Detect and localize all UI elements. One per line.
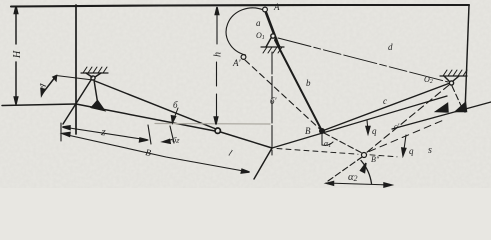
left tick xyxy=(60,123,62,141)
point A' circle xyxy=(241,55,246,60)
svg-text:б: б xyxy=(173,100,178,110)
dash-dot line d O1 to O2 xyxy=(278,38,448,82)
boom lower chord xyxy=(76,104,215,131)
dashed b' A' to B xyxy=(245,60,322,131)
lower arm junction to O2 leg xyxy=(272,96,447,148)
z left arrow xyxy=(63,126,71,130)
svg-text:q: q xyxy=(372,126,377,136)
svg-text:б': б' xyxy=(270,96,278,106)
dz arrow xyxy=(163,140,172,143)
link c B to O2 xyxy=(322,83,450,131)
dim z line xyxy=(63,127,148,140)
joint circle xyxy=(215,128,220,133)
svg-text:a: a xyxy=(256,18,261,28)
short dashed O2 down right xyxy=(452,86,463,110)
B'' circle xyxy=(362,153,367,158)
pivot circle left support xyxy=(91,76,95,80)
right border line xyxy=(465,5,469,112)
alpha1 angle arc xyxy=(321,134,323,145)
terrain line bottom right xyxy=(392,102,491,129)
q arrow 2 xyxy=(404,135,407,153)
alpha2 right arrow xyxy=(384,183,392,187)
svg-text:В": В" xyxy=(371,155,380,164)
arrow triangle right xyxy=(456,103,467,112)
svg-text:c: c xyxy=(383,96,387,106)
svg-text:q: q xyxy=(409,146,414,156)
dashed junction to B'' xyxy=(277,149,397,157)
label b (boom leader) xyxy=(173,108,178,121)
top border line xyxy=(11,5,469,7)
dimension A upper arrow xyxy=(53,76,57,81)
pivot O1 circle xyxy=(271,34,275,38)
point A circle xyxy=(263,7,268,12)
O1 support legs xyxy=(266,38,280,47)
left support legs xyxy=(86,73,101,77)
alpha2 ray arrow xyxy=(361,163,367,173)
boom segment to junction xyxy=(221,132,273,148)
circle arc path of A xyxy=(226,8,263,55)
dim B long line xyxy=(63,134,249,172)
dashed B to B'' xyxy=(324,133,362,153)
dimension A lower arrow xyxy=(41,89,45,96)
O1 ground line xyxy=(261,46,284,48)
dashed B'' up right xyxy=(369,119,446,152)
svg-text:H: H xyxy=(12,50,23,59)
svg-text:α2: α2 xyxy=(348,172,358,183)
link b O1 to B xyxy=(275,40,322,131)
O2 ground hatch xyxy=(440,75,467,77)
strut pivot to gusset xyxy=(94,80,98,102)
dimension h bottom arrow xyxy=(214,117,218,125)
svg-text:A: A xyxy=(273,2,280,12)
mast vertical xyxy=(75,5,77,134)
alpha2 vertex rays xyxy=(326,183,391,185)
dimension h line xyxy=(216,14,219,117)
O2 support legs xyxy=(444,76,459,81)
baseline at H bottom xyxy=(2,104,76,106)
svg-text:c': c' xyxy=(394,122,400,131)
B dim right arrow xyxy=(241,169,249,173)
svg-text:В: В xyxy=(305,126,311,136)
B dim left arrow xyxy=(63,133,71,137)
dimension H top arrow xyxy=(14,6,18,14)
junction vertical to O1 xyxy=(271,52,273,155)
svg-text:A': A' xyxy=(232,58,241,68)
dimension H line xyxy=(15,14,17,97)
strut pivot to mast crossing xyxy=(63,80,91,124)
alpha2 arc xyxy=(361,161,372,184)
arrow triangle on c' xyxy=(436,104,448,113)
pivot O2 circle xyxy=(449,81,453,85)
ground hatch left support xyxy=(81,72,108,74)
dimension H bottom arrow xyxy=(14,97,18,105)
svg-text:d: d xyxy=(388,42,393,52)
point B filled xyxy=(319,128,325,134)
svg-text:s: s xyxy=(428,145,432,156)
dashed c' O2 to B'' xyxy=(366,85,449,153)
svg-text:h: h xyxy=(213,52,224,57)
z right arrow xyxy=(140,138,148,142)
svg-text:b: b xyxy=(306,78,311,88)
tick 1 xyxy=(148,125,151,144)
line from A-dim to pivot xyxy=(56,76,93,81)
tick 2 xyxy=(170,126,174,143)
O1 ground hatch xyxy=(263,47,282,53)
dimension A line xyxy=(42,76,56,94)
crank link a (thick) xyxy=(266,13,279,48)
gusset filled triangle xyxy=(92,101,105,111)
dimension h top arrow xyxy=(215,7,219,15)
faint guide line xyxy=(155,123,270,126)
q arrow 1 xyxy=(367,120,368,131)
boom upper chord xyxy=(95,81,216,129)
junction steep drop xyxy=(254,148,272,179)
